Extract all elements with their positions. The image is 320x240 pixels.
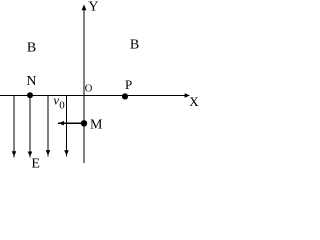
svg-text:X: X — [189, 94, 199, 109]
svg-text:E: E — [31, 157, 40, 169]
svg-text:M: M — [90, 118, 103, 133]
y-axis — [82, 4, 87, 163]
svg-text:B: B — [130, 38, 139, 53]
E field line 3 — [46, 96, 51, 157]
point N — [27, 92, 33, 98]
point M — [81, 120, 87, 126]
svg-text:N: N — [26, 74, 36, 89]
velocity arrow v0 from M — [58, 121, 84, 126]
svg-text:O: O — [85, 84, 93, 95]
E field line 1 — [12, 96, 17, 158]
svg-text:P: P — [125, 77, 132, 92]
E field line 2 — [28, 96, 33, 158]
velocity label v0 — [54, 94, 66, 112]
svg-text:0: 0 — [59, 99, 65, 111]
svg-text:B: B — [27, 40, 36, 55]
E field line 4 — [64, 96, 69, 157]
svg-text:Y: Y — [88, 0, 98, 15]
point P — [122, 93, 128, 99]
x-axis — [0, 93, 190, 98]
